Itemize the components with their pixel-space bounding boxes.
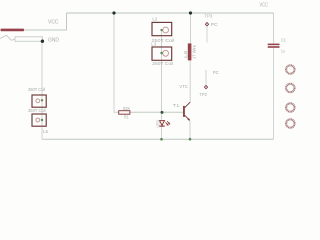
svg-text:LED1: LED1 [155,119,160,127]
pad ring 1 [286,65,294,73]
pin dot L4 [41,99,43,101]
junction node jack gnd [41,40,44,43]
transistor T1 bar [183,106,185,117]
LED1 arrow b [167,121,169,123]
svg-text:L6: L6 [183,50,188,58]
wire rail down to C1 [273,13,275,44]
inductor L5 box [32,114,46,126]
LED1 cathode bar [159,126,164,127]
pin dot L3 [160,52,162,54]
pad ring 2 [286,84,294,92]
svg-text:1u: 1u [281,48,285,53]
inductor L4 box [32,95,46,107]
svg-text:R1: R1 [124,115,129,120]
svg-text:350T Coil: 350T Coil [28,87,45,92]
svg-text:L2: L2 [152,16,157,21]
testpoint TP2 diamond [204,85,208,90]
svg-text:1T Wire: 1T Wire [192,45,197,59]
wire tip of jack to VCC rail [24,13,67,30]
pin dot L5 [41,119,43,121]
LED1 arrow a [166,122,168,124]
wire emitter to bottom rail [189,121,191,139]
wire C1 down to bottom rail [273,48,275,140]
inductor L4 circle [36,99,40,103]
junction node rail L6 [189,11,192,14]
svg-text:L3: L3 [151,42,156,47]
svg-text:TP2: TP2 [199,92,207,97]
inductor L2 circle [163,27,169,33]
LED1 triangle [160,121,165,126]
junction node bottom LED [160,138,163,141]
inductor L5 circle [36,118,40,122]
resistor R1 body [119,111,130,115]
wire L2 pin down through L3 to LED [161,30,163,120]
svg-text:VCC: VCC [260,2,269,8]
svg-text:GND: GND [48,37,59,43]
wire bottom rail [42,138,274,140]
transistor T1 emitter [185,115,189,119]
transistor T1 collector [185,102,190,108]
junction node bottom emitter [189,138,192,141]
jack J1 tip bar [1,29,25,32]
jack J1 sleeve zigzag [0,35,15,40]
svg-text:T1: T1 [173,103,180,108]
wire rail to L6 [190,13,192,43]
wire L6 to collector [189,60,191,102]
wire R1 to base of T1 [130,111,183,113]
jack J1 sleeve box [15,37,43,42]
testpoint TP2 pin [205,70,207,85]
junction node base [161,111,164,114]
inductor L3 circle [163,50,169,56]
svg-text:PC: PC [211,22,219,27]
capacitor C1 plate top [268,44,280,46]
transistor T1 emitter arrow [187,118,190,121]
svg-text:250T Coil: 250T Coil [152,61,173,66]
wire LED cathode to bottom rail [161,127,163,139]
svg-text:PC: PC [213,70,220,75]
svg-text:VCC: VCC [48,19,59,25]
svg-text:C1: C1 [281,37,286,42]
wire GND down through coils L4 L5 [41,41,43,139]
wire VCC top rail [67,12,274,14]
pad ring 4 [286,119,294,127]
svg-text:TP3: TP3 [204,14,212,19]
svg-text:L5: L5 [43,129,48,134]
pad ring 3 [286,103,294,111]
inductor L3 box [152,47,172,60]
inductor L2 box [152,22,172,35]
inductor L6 body [188,43,192,60]
testpoint TP3 diamond [205,22,209,27]
svg-text:350T Coil: 350T Coil [28,108,46,113]
pin dot L2 [160,29,162,31]
capacitor C1 plate bottom [268,46,280,48]
wire VCC down to R1 [114,13,119,112]
svg-text:VTC: VTC [179,84,188,89]
junction node rail R1 [112,11,115,14]
testpoint TP3 pin [206,27,208,43]
svg-text:82K: 82K [123,106,131,111]
